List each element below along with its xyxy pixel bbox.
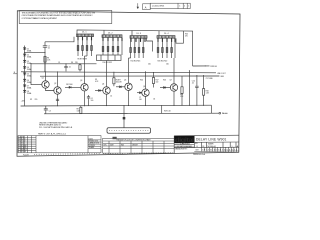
svg-text:DL 4: DL 4: [164, 33, 169, 35]
svg-text:D6: D6: [27, 80, 29, 82]
svg-text:C3: C3: [49, 111, 51, 113]
svg-text:PARTS LIST A-PL-W901-0-0: PARTS LIST A-PL-W901-0-0: [38, 133, 67, 136]
svg-text:D7: D7: [27, 85, 29, 87]
svg-text:13 12 11 10 9 8 7 6 5 4 3 2 1: 13 12 11 10 9 8 7 6 5 4 3 2 1: [202, 149, 237, 151]
svg-text:Q4: Q4: [102, 83, 104, 85]
svg-text:CIRCUITS ARE PROPRIETARY IN NA: CIRCUITS ARE PROPRIETARY IN NATURE AND S…: [22, 14, 94, 17]
svg-text:F-10-293: F-10-293: [23, 154, 29, 156]
svg-text:.01: .01: [69, 67, 71, 69]
svg-text:2N3639: 2N3639: [132, 144, 138, 146]
svg-text:R4: R4: [71, 62, 73, 64]
svg-text:D8: D8: [27, 91, 29, 93]
svg-text:I-O-100C W901: I-O-100C W901: [152, 6, 165, 8]
svg-text:DELAY LINE W901: DELAY LINE W901: [196, 138, 227, 142]
svg-text:DIST: DIST: [196, 150, 199, 152]
svg-text:R13: R13: [163, 80, 166, 82]
svg-text:digital: digital: [175, 137, 194, 144]
svg-text:C5: C5: [58, 62, 60, 64]
svg-text:0: 0: [184, 6, 185, 8]
svg-text:PWR GD: PWR GD: [210, 66, 217, 68]
svg-text:R19 1.5K: R19 1.5K: [164, 111, 171, 113]
svg-text:R20 R21 R22: R20 R21 R22: [158, 60, 168, 62]
svg-text:TRANSISTOR & DIODE CONVERSION: TRANSISTOR & DIODE CONVERSION CHART: [116, 139, 151, 142]
svg-text:DL 3: DL 3: [137, 33, 142, 35]
svg-text:R6 R7 R8 R9: R6 R7 R8 R9: [78, 58, 87, 60]
svg-text:100: 100: [91, 100, 94, 102]
svg-text:1: 1: [188, 6, 189, 8]
svg-text:R10 R11 R12: R10 R11 R12: [103, 62, 113, 64]
svg-text:SIZE: SIZE: [195, 143, 198, 145]
svg-text:R14 R15 R16: R14 R15 R16: [131, 60, 141, 62]
svg-text:D5: D5: [27, 74, 29, 76]
svg-text:470: 470: [185, 36, 188, 38]
svg-text:Q6: Q6: [143, 86, 145, 88]
svg-text:PL1 : 100 P. ATTR. AND INK PIN: PL1 : 100 P. ATTR. AND INK PIN LOAD 1-B: [39, 126, 73, 129]
svg-text:100: 100: [156, 81, 159, 83]
svg-text:D2: D2: [27, 55, 29, 57]
svg-text:Q2: Q2: [54, 83, 56, 85]
svg-text:100: 100: [139, 99, 142, 101]
svg-text:R10: R10: [140, 80, 143, 82]
svg-text:.01: .01: [48, 48, 50, 50]
svg-text:C6: C6: [153, 99, 155, 101]
svg-text:220: 220: [35, 99, 38, 101]
svg-text:C5: C5: [110, 96, 112, 98]
svg-text:R2: R2: [30, 99, 32, 101]
svg-text:D4: D4: [27, 67, 29, 69]
svg-text:THIS SCHEMATIC IS FURNISHED ON: THIS SCHEMATIC IS FURNISHED ONLY FOR TES…: [22, 12, 96, 15]
svg-text:TRANS: TRANS: [89, 146, 95, 149]
svg-text:Q5: Q5: [124, 79, 126, 81]
svg-text:Q7: Q7: [170, 80, 172, 82]
svg-text:P 1 1 1903: P 1 1 1903: [18, 151, 26, 153]
svg-text:3639: 3639: [110, 144, 114, 146]
svg-text:D1: D1: [27, 48, 29, 50]
svg-text:DL 2: DL 2: [108, 32, 113, 34]
svg-text:1: 1: [232, 146, 233, 148]
svg-text:220: 220: [148, 64, 151, 66]
svg-text:Q1: Q1: [42, 78, 44, 80]
svg-text:DL 1: DL 1: [82, 32, 87, 34]
svg-text:COPYRIGHT 1960 BY DIGITAL EQUI: COPYRIGHT 1960 BY DIGITAL EQUIPMENT: [22, 17, 58, 20]
svg-text:D9 1N34: D9 1N34: [66, 84, 72, 86]
svg-text:220: 220: [75, 62, 78, 64]
svg-text:D3: D3: [27, 61, 29, 63]
svg-text:.01: .01: [192, 83, 194, 85]
svg-text:PLT GND: PLT GND: [206, 78, 214, 80]
svg-text:Q3: Q3: [80, 80, 82, 82]
svg-text:100: 100: [166, 64, 169, 66]
